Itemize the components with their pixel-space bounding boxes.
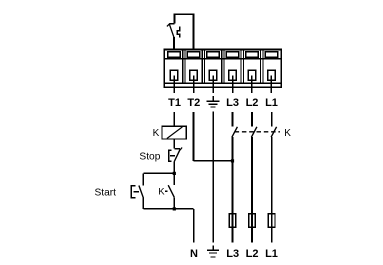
svg-text:L2: L2	[246, 248, 259, 260]
svg-text:K: K	[158, 187, 165, 198]
svg-text:T2: T2	[187, 97, 200, 109]
svg-text:K: K	[284, 128, 291, 139]
svg-text:L1: L1	[265, 248, 278, 260]
svg-text:L2: L2	[246, 97, 259, 109]
svg-text:N: N	[190, 248, 198, 260]
svg-text:Stop: Stop	[139, 152, 160, 163]
svg-text:L3: L3	[226, 248, 239, 260]
svg-text:L3: L3	[226, 97, 239, 109]
svg-text:T1: T1	[168, 97, 181, 109]
svg-text:Start: Start	[94, 187, 116, 198]
svg-text:K: K	[153, 128, 160, 139]
svg-text:L1: L1	[265, 97, 278, 109]
